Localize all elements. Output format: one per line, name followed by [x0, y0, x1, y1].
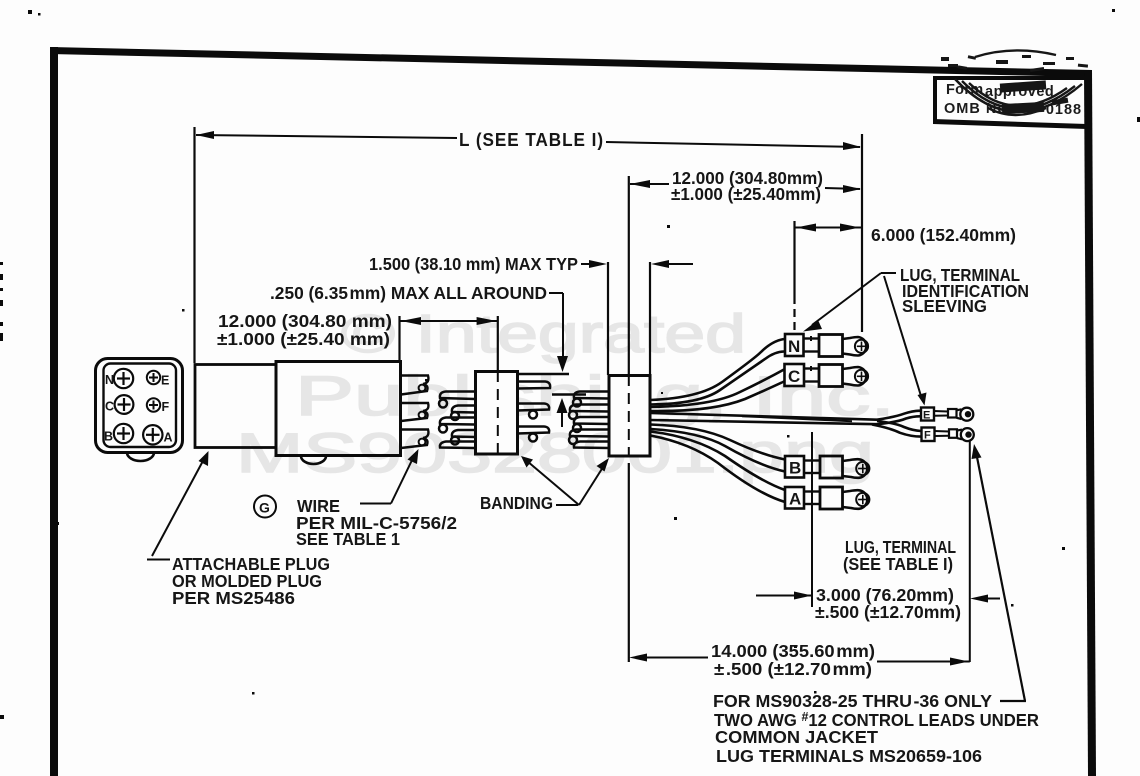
svg-text:MS90328001.png: MS90328001.png — [236, 421, 874, 484]
band2 left edge extension — [607, 262, 609, 375]
plug main body — [276, 362, 401, 456]
wire stub 3 (bottom) — [401, 430, 428, 449]
contact F — [147, 398, 160, 411]
plug rear section — [195, 365, 276, 448]
extension line at plug right edge — [398, 316, 400, 362]
contact E — [147, 371, 160, 384]
connector outer shell — [96, 359, 183, 453]
svg-text:A: A — [789, 490, 801, 509]
svg-text:LUG TERMINALS MS20659-106: LUG TERMINALS MS20659-106 — [716, 746, 982, 766]
wire stub 1 (top) — [401, 376, 428, 395]
svg-text:BANDING: BANDING — [480, 493, 553, 513]
svg-text:N: N — [788, 337, 800, 356]
svg-text:SLEEVING: SLEEVING — [902, 296, 987, 316]
contact A — [143, 425, 162, 444]
svg-text:L (SEE TABLE I): L (SEE TABLE I) — [459, 130, 604, 150]
band2 centerline extension from 12.000 dim down to 14.000 dim — [628, 176, 630, 368]
svg-text:(SEE TABLE I): (SEE TABLE I) — [843, 554, 953, 574]
connector inner face — [104, 364, 177, 448]
svg-text:E: E — [923, 410, 930, 422]
stamp ink blobs — [941, 55, 1088, 114]
leader to band 2 — [579, 464, 605, 505]
svg-text:± .500 (±12.70 mm): ± .500 (±12.70 mm) — [714, 659, 872, 679]
wire to lug C — [651, 370, 785, 408]
svg-text:±.500 (±12.70mm): ±.500 (±12.70mm) — [815, 602, 961, 622]
wire to lug A — [651, 432, 786, 491]
svg-text:A: A — [164, 431, 173, 445]
svg-text:.250 (6.35 mm) MAX ALL AROUND: .250 (6.35 mm) MAX ALL AROUND — [270, 283, 547, 303]
connector bottom tab — [127, 453, 154, 462]
svg-text:1.500 (38.10 mm) MAX TYP: 1.500 (38.10 mm) MAX TYP — [369, 254, 578, 274]
stamp overprint arcs — [955, 50, 1082, 115]
svg-text:12.000 (304.80 mm): 12.000 (304.80 mm) — [218, 311, 392, 331]
svg-text:B: B — [104, 430, 113, 444]
leader from note to F lug eye — [976, 452, 1025, 701]
band 2 centerline dashed (over band) — [628, 375, 630, 456]
stamp box top right — [933, 76, 1087, 129]
svg-text:14.000 (355.60 mm): 14.000 (355.60 mm) — [711, 641, 875, 661]
svg-text:±1.000 (±25.40 mm): ±1.000 (±25.40 mm) — [217, 329, 390, 349]
dim .250 leader — [549, 292, 563, 294]
extension line band1 centerline top — [497, 316, 499, 371]
wire to lug N — [651, 339, 785, 400]
dim L: right segment + arrow — [606, 142, 860, 147]
plug bottom tab — [301, 456, 326, 464]
dim .250 lower arrow — [557, 398, 568, 413]
frame left border — [50, 47, 58, 776]
extension line from F lug eye — [969, 440, 971, 662]
fork lower branch to lug F — [877, 421, 921, 431]
svg-text:F: F — [162, 400, 170, 414]
svg-text:N: N — [105, 373, 114, 387]
svg-text:FOR MS90328-25 THRU -36 ONLY: FOR MS90328-25 THRU -36 ONLY — [713, 691, 992, 711]
svg-text:PER MS25486: PER MS25486 — [172, 588, 295, 608]
dim 6.000: dim line with arrows — [795, 227, 863, 229]
wire stub 2 (middle) — [401, 403, 428, 421]
leader to band 1 — [527, 461, 579, 505]
wire leader — [360, 503, 391, 505]
svg-text:C: C — [788, 367, 800, 386]
svg-text:COMMON JACKET: COMMON JACKET — [715, 727, 878, 747]
svg-text:C: C — [105, 400, 114, 414]
svg-text:B: B — [789, 459, 801, 478]
svg-text:© Integrated: © Integrated — [341, 304, 746, 364]
svg-text:±1.000 (±25.40mm): ±1.000 (±25.40mm) — [671, 184, 821, 204]
jacket splice overlap line — [742, 416, 852, 421]
svg-text:E: E — [161, 374, 169, 388]
leader to N lug — [881, 272, 896, 274]
svg-text:6.000 (152.40mm): 6.000 (152.40mm) — [871, 225, 1016, 245]
band 1 centerline dashed — [497, 371, 499, 461]
contact N — [114, 369, 133, 388]
dim L: left arrow — [196, 131, 214, 139]
dim 12.000 right segment + arrow — [825, 188, 860, 189]
extension line through B/A lugs — [811, 432, 813, 607]
frame top border — [50, 47, 1092, 77]
dim 1.500: right arrow — [651, 260, 669, 268]
dim 1.500: arrow to band2 left edge — [581, 263, 600, 265]
contact C — [115, 395, 134, 414]
frame right border — [1084, 70, 1096, 776]
dim 12.000 top-right: left arrow — [630, 180, 650, 188]
dim L right extension line — [861, 134, 863, 332]
dim L (SEE TABLE I): left extension line — [193, 127, 195, 363]
band2 right edge extension — [649, 262, 651, 375]
leader to E lug — [884, 276, 921, 396]
dim line plug-to-band1 with arrows — [400, 320, 498, 322]
svg-text:SEE TABLE 1: SEE TABLE 1 — [296, 529, 400, 549]
svg-text:G: G — [259, 500, 270, 516]
wire to lug B — [651, 425, 786, 460]
fork upper branch to lug E — [877, 411, 920, 420]
dim 6.000 left extension line (part dashed) — [793, 221, 795, 296]
jacket pair to fork — [651, 413, 878, 420]
contact B — [114, 424, 133, 443]
svg-text:F: F — [924, 430, 931, 442]
